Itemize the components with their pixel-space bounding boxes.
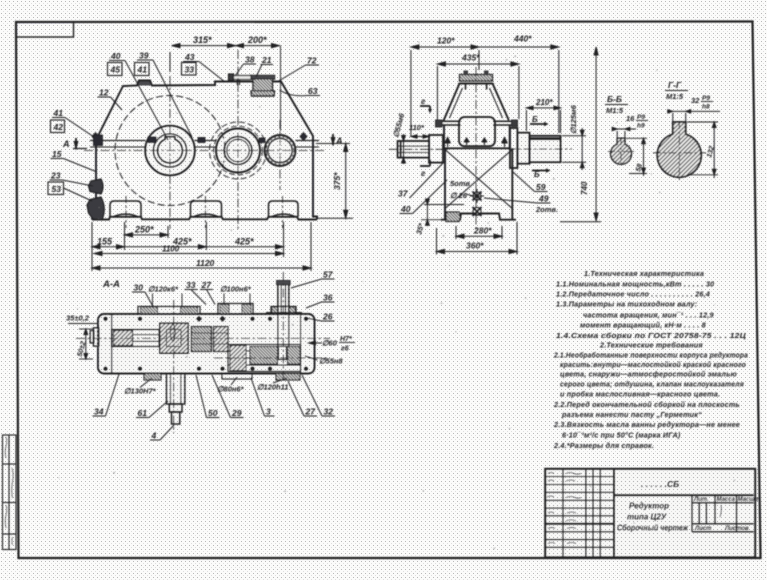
label dia120k6 with ext lines (148, 285, 182, 308)
svg-text:15: 15 (52, 149, 62, 159)
A-A: bearing cap 1 (top left) (138, 307, 200, 315)
section mark Б top (530, 115, 549, 126)
A-A: fast shaft lower band with bearings (228, 345, 301, 372)
front view: input bearing boss circles (265, 135, 296, 166)
svg-text:г: г (421, 169, 426, 178)
dimension 120 (top) (411, 45, 479, 136)
label dia100n6 with ext lines (220, 285, 252, 305)
svg-text:М1:5: М1:5 (666, 92, 684, 101)
front view: oil level plug (hatched, left wall) (89, 179, 104, 194)
svg-text:Масшт: Масшт (738, 497, 761, 503)
front view: foot cutout 2 (191, 201, 222, 217)
side view: foundation bolt hole upper (470, 189, 484, 203)
A-A: input shaft gland (top right) (271, 281, 296, 315)
front view: housing outline (92, 81, 317, 220)
svg-text:16: 16 (626, 114, 635, 123)
label 34 with leader (93, 374, 120, 417)
svg-text:40: 40 (400, 204, 411, 214)
label 40 with leader (109, 51, 168, 140)
dimension 200 (top, between shafts 2-3) (236, 44, 281, 132)
svg-text:40: 40 (110, 51, 121, 61)
label 41 (boxed) (135, 63, 150, 76)
svg-text:и пробка маслосливная—красного: и пробка маслосливная—красного цвета. (560, 390, 720, 399)
svg-text:2.1.Необработанные поверхности: 2.1.Необработанные поверхности корпуса р… (553, 351, 748, 360)
label 39 with leader (137, 51, 192, 138)
svg-text:27: 27 (305, 407, 317, 417)
svg-text:43: 43 (184, 52, 195, 62)
svg-text:38: 38 (245, 55, 255, 65)
A-A: flange bolt dots top (103, 316, 308, 322)
label 15 with leader (51, 149, 98, 172)
label 49 with leader (484, 194, 551, 204)
front view: section arrow A left (62, 138, 87, 151)
side view: drain plug (hatched blob bottom-left) (446, 212, 461, 222)
dimension 1100 (bottom) (94, 251, 283, 255)
dimension 280 (side bottom) (456, 226, 502, 239)
label 40 with leader (side) (400, 180, 448, 214)
svg-text:39: 39 (139, 51, 149, 61)
A-A: output shaft extending down (167, 374, 185, 425)
svg-text:∅100н6*: ∅100н6* (220, 285, 252, 294)
label dia55n8 with leader (305, 356, 343, 366)
svg-text:33: 33 (185, 64, 195, 74)
A-A: bottom bearing cap bumps (144, 374, 300, 381)
front view: foot cutout 3 (269, 201, 299, 217)
dimension 425 first (bottom) (125, 245, 207, 249)
svg-text:Р9: Р9 (702, 95, 710, 102)
front view: output bearing boss mid circle (153, 134, 186, 167)
svg-text:49: 49 (538, 194, 549, 204)
svg-text:Б-Б: Б-Б (607, 94, 622, 104)
A-A: centerlines (76, 272, 330, 433)
A-A: intermediate shaft blocks (191, 327, 228, 352)
svg-text:29: 29 (231, 408, 242, 418)
A-A: left end covers (90, 328, 99, 346)
technical characteristics text (553, 269, 748, 450)
svg-text:М1:5: М1:5 (606, 106, 624, 115)
dimension 50±2 (rotated) (79, 329, 93, 359)
svg-text:h8: h8 (702, 104, 710, 111)
svg-text:53: 53 (52, 184, 62, 194)
dimension 35±0,2 (66, 314, 97, 324)
svg-text:А: А (62, 139, 70, 149)
svg-text:59: 59 (536, 182, 546, 192)
svg-text:∅55н8: ∅55н8 (319, 357, 343, 366)
front view: base bottom profile with steps (92, 217, 317, 220)
front view: intermediate gear pitch circle (dashed) (210, 122, 267, 179)
side view: output shaft (right stub) (510, 128, 561, 168)
svg-text:1100: 1100 (162, 245, 180, 254)
section Б-Б label (605, 94, 628, 115)
svg-text:1.Техническая характеристика: 1.Техническая характеристика (584, 269, 704, 278)
svg-text:. . . . . .СБ: . . . . . .СБ (641, 479, 679, 489)
front view: flange split line lower (90, 146, 319, 148)
label 38 with leader (235, 55, 256, 77)
svg-text:Г-Г: Г-Г (668, 80, 682, 90)
A-A: housing body outline (98, 314, 315, 374)
label 3 with leader (251, 378, 275, 417)
section Г-Г depth dim (687, 122, 718, 178)
svg-text:Р9: Р9 (637, 114, 645, 121)
front view: foot cutout 1 (110, 201, 141, 217)
svg-text:41: 41 (137, 65, 148, 75)
svg-text:А-А: А-А (102, 279, 120, 290)
dimension 435 (437, 62, 519, 120)
section mark Б bottom (532, 168, 551, 179)
dimension 250 (bottom) (125, 233, 169, 237)
title block: right sub-table (692, 495, 754, 532)
svg-text:∅125м6: ∅125м6 (569, 104, 578, 134)
label 32 with leader (302, 375, 335, 417)
front view: big gear pitch circle (dashed) (115, 96, 225, 206)
title block: horizontal divider under designation (614, 494, 754, 496)
svg-text:435*: 435* (461, 53, 480, 63)
svg-text:2.4.*Размеры для справок.: 2.4.*Размеры для справок. (553, 441, 654, 450)
label 43 with leader (183, 52, 225, 82)
dimension 440 (top) (479, 45, 559, 133)
svg-text:Редуктор: Редуктор (629, 502, 669, 511)
svg-text:57: 57 (323, 270, 334, 280)
dimension 375 (right vertical) (316, 144, 353, 219)
label 45 (boxed) (108, 63, 123, 76)
svg-text:440*: 440* (513, 34, 532, 44)
front view: section arrow A right (331, 134, 343, 147)
front view: vent bar plate (229, 74, 252, 85)
side view: flange end bolts (436, 120, 518, 127)
dimension 1120 (bottom, widest) (92, 222, 311, 271)
label 36 with leader (306, 293, 335, 309)
label 30 with leader (132, 283, 153, 307)
svg-text:1.2.Передаточное число . . . .: 1.2.Передаточное число . . . . . . . . .… (556, 290, 710, 299)
svg-text:красить:внутри—маслостойкой кр: красить:внутри—маслостойкой краской крас… (560, 360, 746, 369)
label 4 with leader (150, 425, 174, 441)
dimension 110 (side view left) (411, 135, 429, 138)
svg-text:г6: г6 (341, 346, 349, 353)
svg-text:280*: 280* (473, 226, 492, 236)
svg-text:375*: 375* (332, 172, 342, 190)
svg-text:12: 12 (99, 88, 109, 98)
A-A: bearing cap 2 (top middle) (218, 304, 253, 315)
side view: input shaft centerline (389, 148, 448, 150)
side view: housing trapezoid outline (441, 84, 516, 220)
svg-text:36: 36 (323, 293, 333, 303)
svg-text:типа Ц2У: типа Ц2У (627, 513, 667, 522)
label 57 with leader (291, 270, 335, 289)
label 29 with leader (212, 375, 244, 418)
svg-text:3: 3 (266, 407, 271, 417)
side view: base X ribs (445, 150, 512, 209)
front view: foot bolt centerlines (126, 196, 283, 228)
svg-text:315*: 315* (193, 35, 212, 45)
section Б-Б keyway width dim 16 (612, 127, 636, 140)
A-A: slow shaft horizontal band with bearing (112, 330, 160, 347)
title block outer frame (545, 469, 755, 558)
title block: right sub-table headers (693, 497, 761, 532)
label 21 with leader (256, 55, 273, 77)
front view: oil drain plug (hatched, left wall) (87, 197, 104, 220)
side view: flange bolt symbols (445, 138, 508, 148)
svg-text:А: А (335, 136, 343, 146)
label 27 with leader (bottom) (288, 381, 317, 417)
label 41 left with leader (52, 108, 94, 137)
svg-text:1120: 1120 (196, 258, 215, 268)
svg-text:250*: 250* (134, 225, 154, 235)
dimension dia125 vertical line (562, 128, 586, 170)
svg-text:Лист: Лист (694, 526, 712, 532)
svg-text:1.3.Параметры на тихоходном ва: 1.3.Параметры на тихоходном валу: (556, 300, 698, 309)
svg-text:Масса: Масса (717, 497, 736, 503)
svg-text:360*: 360* (466, 241, 484, 251)
svg-text:разъема нанести пасту „Гермети: разъема нанести пасту „Герметик“ (561, 410, 702, 419)
label 26 with leader (306, 312, 335, 322)
svg-text:серого цвета; отдушина, клапан: серого цвета; отдушина, клапан маслоуказ… (560, 380, 745, 389)
front view: output shaft hole with keyway (158, 137, 183, 163)
svg-text:∅120к6*: ∅120к6* (148, 285, 179, 294)
side view: top cap hatched (458, 71, 494, 90)
front view: lifting lug top-left (137, 81, 152, 86)
svg-text:момент вращающий, кН·м . . . .: момент вращающий, кН·м . . . . 8 (580, 321, 706, 330)
label dia120h11 with leader (257, 378, 288, 392)
svg-text:5отв: 5отв (450, 179, 470, 188)
label 63 with leader (280, 86, 321, 96)
svg-text:210*: 210* (535, 98, 553, 107)
svg-text:∅80н6*: ∅80н6* (217, 385, 245, 394)
label 12 with leader (98, 88, 123, 111)
svg-text:цвета, снаружи—атмосферостойко: цвета, снаружи—атмосферостойкой эмалью (560, 370, 737, 379)
front view: flange split line upper (90, 140, 319, 142)
section Г-Г label (665, 80, 688, 101)
left margin vertical squiggles (5, 437, 13, 545)
side view: foundation bolt hole lower (473, 207, 482, 216)
svg-text:h9: h9 (637, 123, 645, 130)
dimension 315 (top, between shafts 1-2) (170, 44, 236, 73)
svg-text:155: 155 (97, 237, 113, 247)
svg-text:32: 32 (324, 407, 334, 417)
A-A: input shaft tube continuation into body (266, 313, 302, 347)
svg-text:26: 26 (322, 312, 333, 322)
svg-text:41: 41 (53, 108, 64, 118)
svg-text:63: 63 (308, 86, 318, 96)
side view: housing inner slope walls (450, 88, 503, 118)
svg-text:Н7*: Н7* (340, 336, 352, 343)
side view: input shaft (left stub) (398, 135, 443, 163)
label 59 with leader (513, 172, 548, 192)
bottom-left margin stamp table (3, 435, 17, 550)
A-A: big gear block on vertical shaft (160, 323, 188, 353)
svg-text:2.2.Перед окончательной сборко: 2.2.Перед окончательной сборкой на плоск… (553, 400, 740, 409)
svg-text:4: 4 (151, 431, 157, 441)
svg-text:∅60: ∅60 (322, 339, 338, 348)
svg-text:г: г (421, 97, 426, 106)
A-A: flange bolt dots bottom (103, 367, 308, 371)
svg-text:Сборочный чертеж: Сборочный чертеж (617, 524, 689, 533)
dimension 210 (output shaft) (526, 106, 560, 133)
dimension 425 second (bottom) (206, 245, 283, 249)
svg-text:740: 740 (580, 181, 589, 195)
side view: output shaft centerline (508, 148, 572, 150)
svg-text:частота вращения, мин¯¹ . . .: частота вращения, мин¯¹ . . . 12,9 (583, 311, 714, 320)
dimension 360 (side bottom) (437, 222, 518, 255)
dimension 740 vertical (560, 47, 601, 222)
title block: signature squiggles (547, 473, 721, 544)
title block left grid rows (545, 477, 614, 548)
label 33 (boxed) (182, 63, 197, 76)
title block: name cell text (617, 502, 689, 533)
svg-text:21: 21 (261, 55, 272, 65)
section Б-Б shaft circle with keyway (hatched) (608, 138, 634, 165)
label 50 with leader (196, 375, 220, 418)
side view: flange split double line (436, 121, 517, 125)
svg-text:34: 34 (94, 407, 104, 417)
section mark Г bottom (420, 159, 432, 178)
section Г-Г shaft circle with keyway (hatched) (653, 121, 706, 180)
svg-text:6·10¯³м²/с при 50°С (марка ИГА: 6·10¯³м²/с при 50°С (марка ИГА) (562, 431, 681, 440)
label 42 left (boxed) (51, 120, 65, 133)
svg-text:1.4.Схема сборки по ГОСТ 20758: 1.4.Схема сборки по ГОСТ 20758-75 . . . … (556, 331, 747, 340)
dimension 35 (side, left low) (421, 199, 464, 226)
svg-text:∅120h11: ∅120h11 (257, 383, 288, 392)
title block left grid columns (563, 469, 614, 558)
svg-text:∅ 26: ∅ 26 (450, 191, 468, 200)
svg-text:2.3.Вязкость масла ванны редук: 2.3.Вязкость масла ванны редуктора—не ме… (553, 420, 740, 429)
svg-text:23: 23 (50, 171, 61, 181)
label 61 with leader (136, 401, 168, 418)
front view: output bearing boss outer circle (145, 126, 195, 176)
section mark Г top (420, 97, 432, 114)
svg-text:45: 45 (110, 65, 121, 75)
side view: input shaft dia dim line (402, 134, 406, 164)
A-A: inner wall lines (112, 314, 301, 374)
svg-text:2отв.: 2отв. (535, 205, 558, 214)
side view: bearing cap window (rounded) (459, 117, 495, 146)
svg-text:32: 32 (691, 96, 700, 105)
svg-text:37: 37 (398, 189, 409, 199)
label 37 with leader (397, 162, 445, 199)
svg-text:42: 42 (53, 122, 64, 132)
svg-text:2.Технические требования: 2.Технические требования (599, 341, 703, 350)
front view: intermediate bearing boss circles (214, 126, 263, 175)
svg-text:200*: 200* (247, 35, 267, 45)
label dia130H7 with leader (124, 378, 157, 396)
svg-text:Б: Б (532, 115, 538, 124)
svg-text:120*: 120* (437, 36, 455, 46)
label dia60 H7/g6 with arrow (307, 336, 356, 353)
label dia80n6 with leader (217, 377, 245, 394)
front view: flange bolt marks on split line (92, 133, 307, 146)
section Б-Б depth dim 50 (626, 138, 647, 176)
svg-text:27: 27 (201, 280, 213, 290)
dimension 155 (bottom) (92, 245, 125, 249)
section Г-Г keyway width dim 32 (667, 110, 720, 124)
label 53 (boxed) (48, 182, 92, 201)
svg-text:Листов: Листов (724, 526, 749, 532)
svg-text:425*: 425* (234, 237, 254, 247)
label 23 with leader (50, 171, 94, 187)
label 72 with leader (277, 56, 319, 83)
top-left stamp box (16, 22, 74, 37)
front view: breather filler cap (hatched cup) (251, 76, 275, 97)
front view: output shaft centerlines (84, 50, 326, 229)
svg-text:50: 50 (208, 408, 218, 418)
svg-text:61: 61 (138, 408, 148, 418)
svg-text:1.1.Номинальная мощность,кВт .: 1.1.Номинальная мощность,кВт . . . . . 3… (556, 280, 714, 289)
svg-text:72: 72 (307, 56, 317, 66)
svg-text:Лит.: Лит. (693, 497, 709, 503)
side view: vertical centerline (475, 67, 477, 231)
labels 33 27 with leaders (185, 280, 216, 305)
svg-text:35±0,2: 35±0,2 (66, 314, 90, 323)
